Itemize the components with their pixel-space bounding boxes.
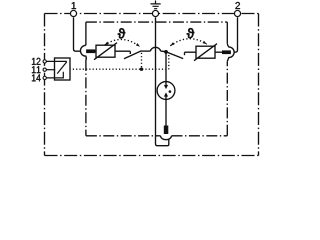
fixed contact right — [184, 52, 186, 55]
contact 14 lead with hook — [47, 72, 64, 78]
wire contact to varistor right — [185, 51, 197, 53]
connector socket right (cup of plug-in contact) — [227, 43, 234, 61]
plug pin left (black) — [86, 49, 95, 53]
varistor right (box with diagonal) — [196, 46, 215, 58]
outer device boundary (dash-dot box) — [45, 13, 259, 15]
varistor left (box with diagonal) — [96, 45, 115, 57]
arrowhead left arc left end — [105, 42, 109, 46]
remote contact terminal 11 circle — [43, 68, 46, 71]
thermal disconnector blade left — [124, 51, 142, 59]
plug pin bottom (black, gas discharge tube) — [164, 126, 169, 135]
gas discharge tube wire down to pin — [165, 99, 167, 125]
label terminal 1 — [72, 2, 76, 9]
junction dot at spark gap branch — [164, 50, 168, 54]
label terminal 2 — [235, 2, 240, 9]
dotted mechanical linkage horizontal — [70, 68, 169, 70]
terminal 1 circle — [70, 10, 76, 16]
changeover contact blade — [57, 62, 67, 74]
wire hump to junction — [161, 50, 166, 53]
inner plug-in module boundary top edge — [86, 21, 227, 23]
earth wire from top terminal down with loop to bottom socket — [156, 17, 169, 146]
wire terminal 1 down to left connector — [74, 17, 81, 51]
inner module boundary bottom edge (right of bottom connector) — [172, 135, 228, 137]
inner module boundary right edge (solid above connector) — [226, 22, 228, 43]
label terminal 12 — [32, 58, 36, 65]
earth symbol at top — [151, 1, 161, 9]
theta symbol right thermal disconnector — [187, 28, 194, 38]
gas discharge tube arrow down — [164, 85, 168, 89]
gas discharge tube arrow up — [164, 92, 168, 96]
dotted linkage vertical to right blade — [168, 55, 170, 69]
contact 12 lead — [47, 60, 67, 62]
theta symbol left thermal disconnector — [118, 28, 125, 38]
remote signalling contact box — [55, 58, 71, 80]
arrowhead right arc right end — [203, 41, 207, 44]
thermal arc left (dotted) — [105, 39, 141, 46]
gas discharge tube circle — [157, 82, 175, 100]
inner module boundary left edge below connector — [85, 60, 87, 136]
gas discharge tube branch wire from junction — [165, 52, 167, 82]
inner module boundary left edge (solid above connector) — [85, 22, 87, 45]
plug pin right (black) — [222, 50, 231, 54]
remote contact terminal 12 circle — [43, 60, 46, 63]
earth terminal circle — [152, 10, 158, 16]
thermal disconnector blade right — [167, 52, 183, 59]
gas discharge tube electrode stubs — [165, 82, 167, 100]
arrowhead left arc right end — [136, 43, 140, 47]
wire varistor left to disconnector fixed contact — [95, 51, 130, 54]
terminal 2 circle — [234, 10, 240, 16]
dotted linkage vertical from left blade — [141, 53, 143, 69]
connector socket bottom (cup under gas discharge tube) — [161, 136, 172, 140]
inner module boundary bottom edge (left of bottom connector) — [86, 135, 161, 137]
connector socket left (cup of plug-in contact) — [80, 45, 86, 60]
wire varistor right to plug pin — [215, 51, 222, 53]
thermal arc right (dotted) — [170, 39, 207, 46]
contact 11 lead — [47, 69, 56, 71]
junction dot on dotted linkage — [140, 68, 143, 71]
gas discharge tube gas dot — [169, 90, 172, 93]
crossover hump over earth wire — [150, 47, 160, 51]
wire terminal 2 down to right connector — [234, 17, 237, 52]
inner module boundary right edge below connector — [226, 61, 228, 136]
remote contact terminal 14 circle — [43, 76, 46, 79]
arrowhead right arc left end — [170, 42, 174, 46]
wire blade to crossover hump — [142, 50, 151, 52]
label terminal 11 — [32, 66, 36, 73]
label terminal 14 — [32, 74, 36, 81]
